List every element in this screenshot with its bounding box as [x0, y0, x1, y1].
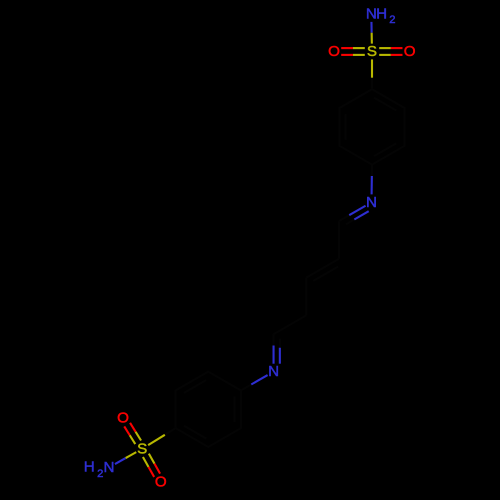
bond ring2-S2: [165, 428, 176, 435]
bond C1-C2: [338, 221, 340, 259]
bond N2-ring2: [251, 375, 267, 384]
double bond C2=C3: [306, 259, 339, 278]
svg-text:O: O: [404, 43, 416, 60]
svg-text:H: H: [376, 6, 387, 23]
bond N(H2)-S1: [370, 22, 372, 33]
benzene ring1: [372, 89, 405, 108]
bond ring1-N1: [371, 165, 373, 176]
svg-text:S: S: [367, 43, 377, 60]
svg-text:N: N: [268, 363, 279, 380]
svg-text:S: S: [137, 440, 147, 457]
svg-text:O: O: [328, 43, 340, 60]
svg-text:N: N: [104, 459, 115, 476]
imine double bond C5=N2: [272, 334, 274, 345]
svg-text:2: 2: [389, 14, 395, 26]
double bond S1=O left: [353, 47, 365, 49]
bond C3-C4: [305, 278, 307, 316]
bond S1-ring1: [371, 59, 373, 77]
double bond S2=O top: [136, 432, 142, 441]
bond S2-N(H2): [126, 452, 137, 458]
svg-text:O: O: [155, 473, 167, 490]
benzene ring2: [208, 372, 241, 391]
double bond S1=O right: [379, 54, 391, 56]
svg-text:2: 2: [97, 468, 103, 480]
imine double bond N1=C1: [349, 206, 365, 215]
double bond S2=O bottom: [143, 457, 149, 467]
svg-text:H: H: [84, 459, 95, 476]
svg-text:O: O: [117, 410, 129, 427]
bond C4-C5: [274, 315, 307, 334]
svg-text:N: N: [366, 194, 377, 211]
